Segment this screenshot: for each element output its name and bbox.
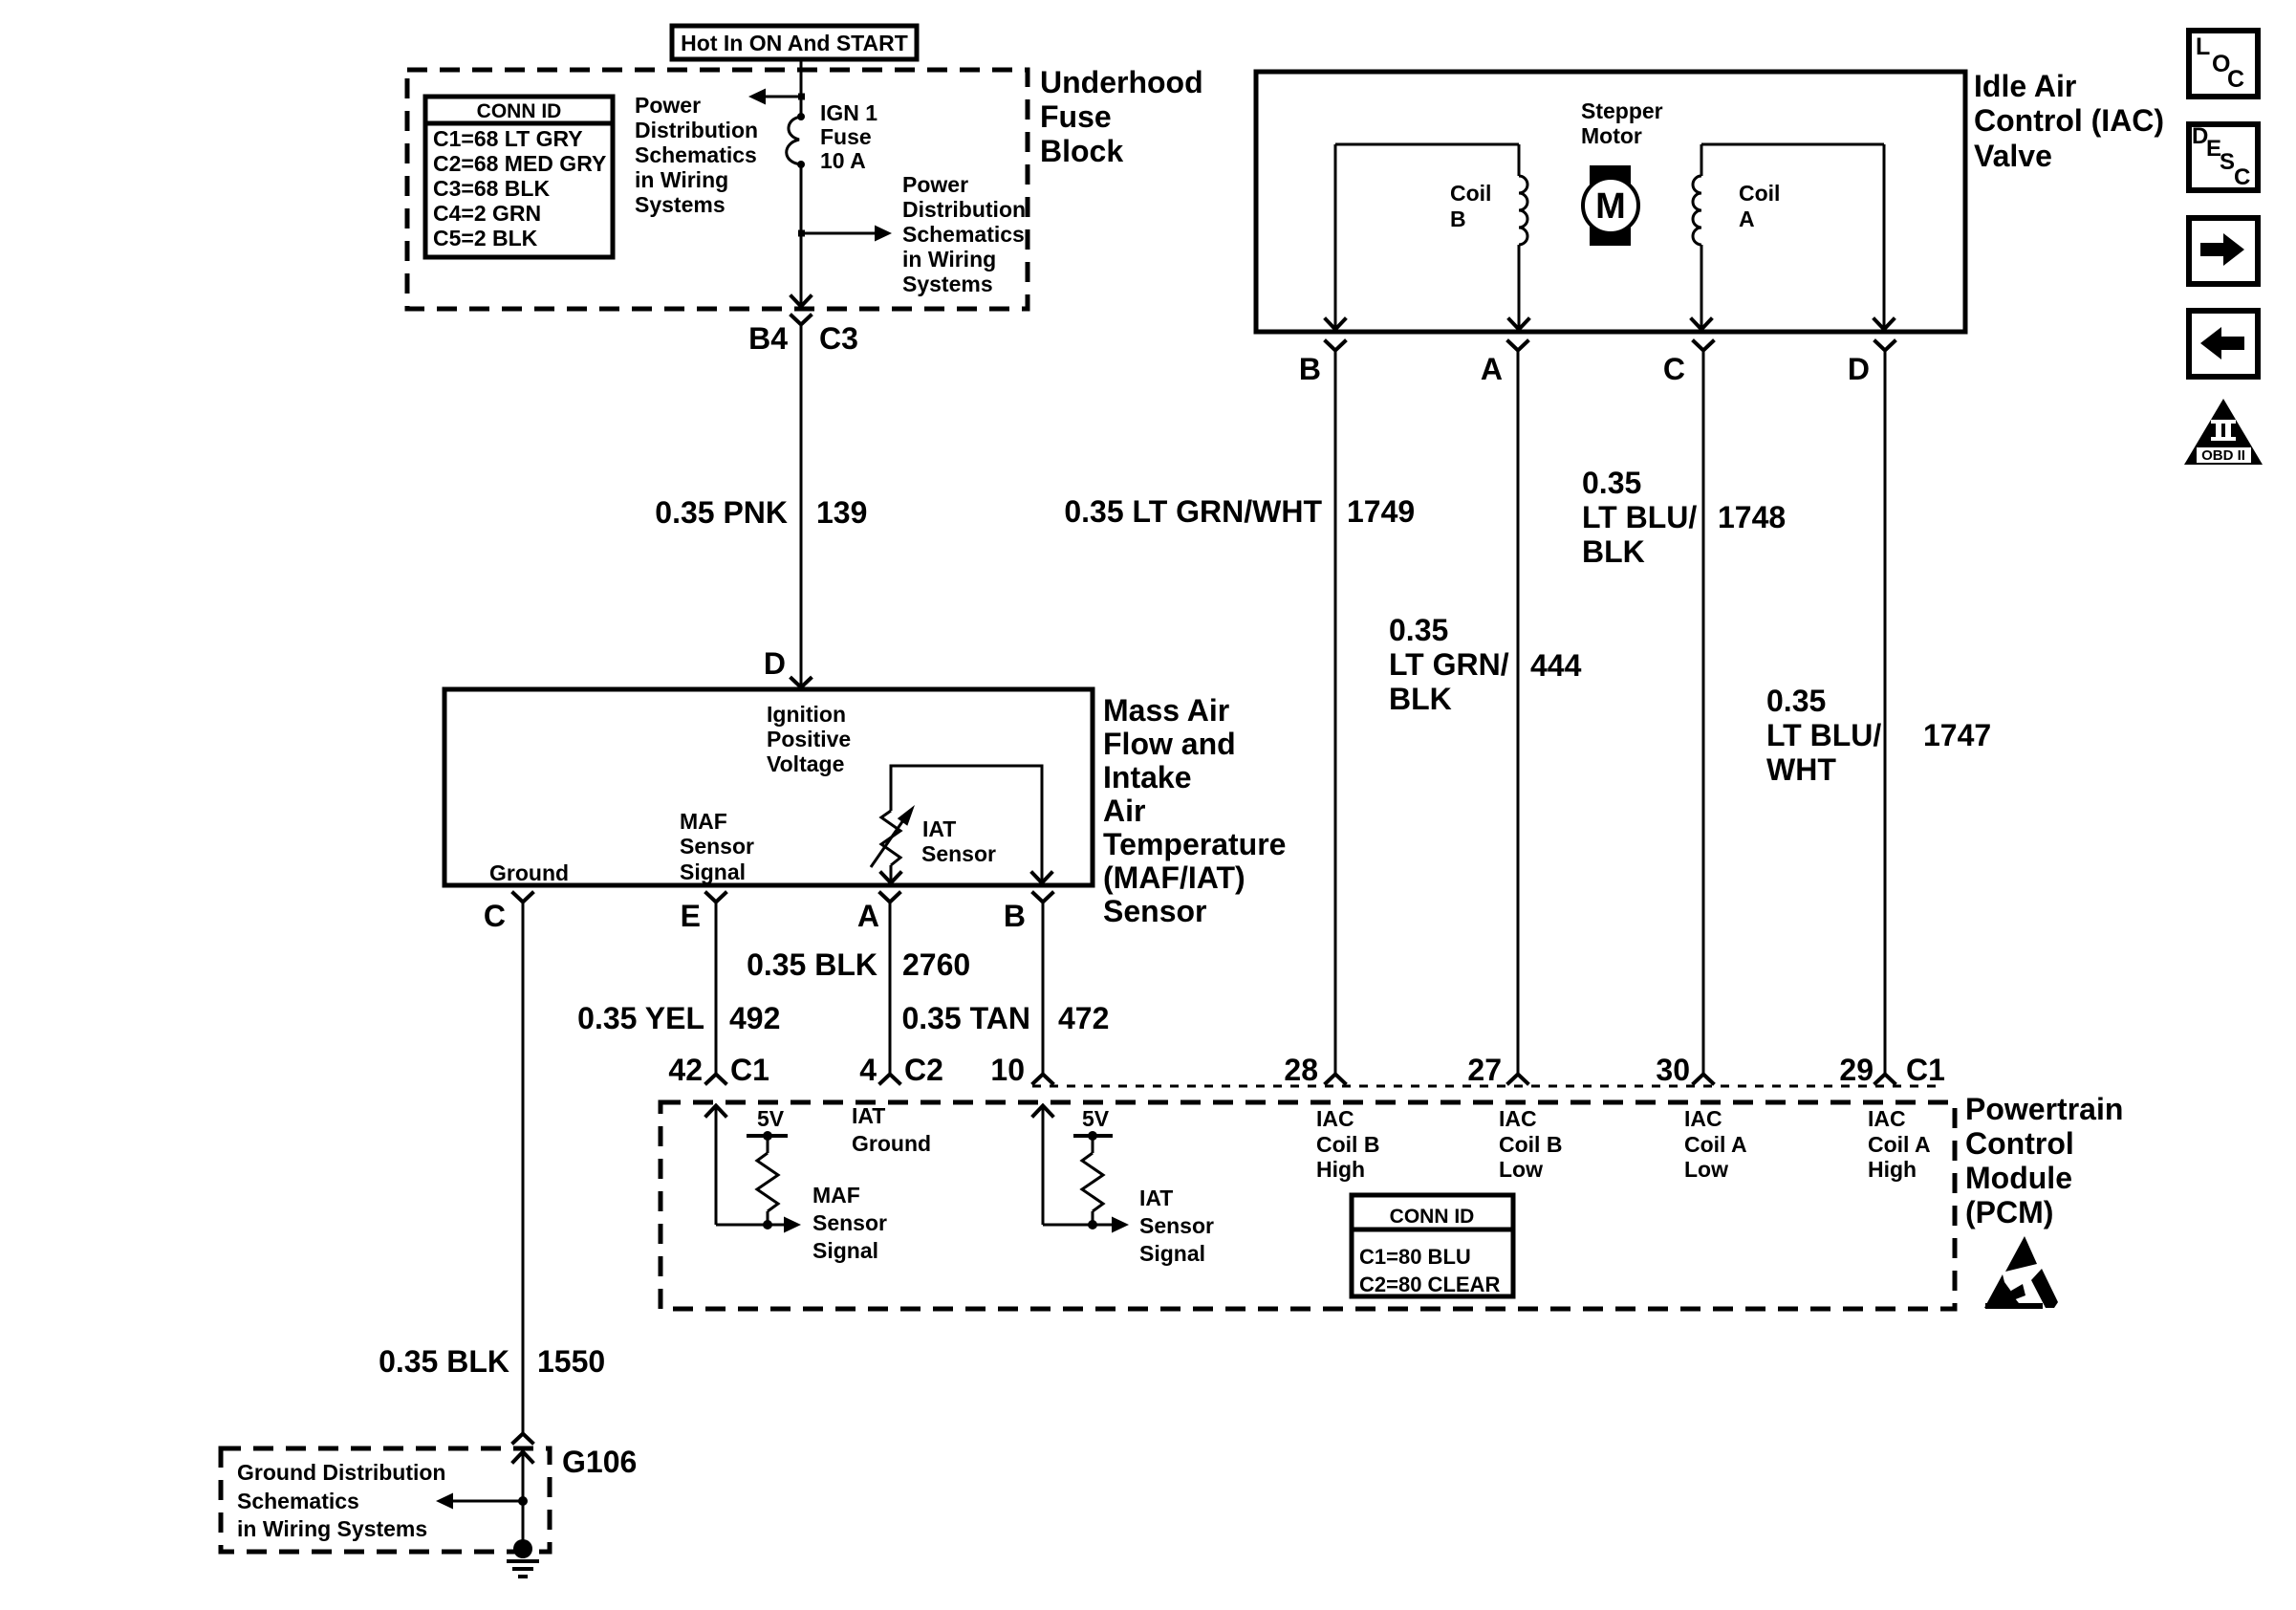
svg-text:in Wiring Systems: in Wiring Systems [237, 1516, 427, 1541]
svg-text:Sensor: Sensor [1139, 1213, 1214, 1238]
svg-text:LT BLU/: LT BLU/ [1582, 500, 1697, 534]
svg-text:492: 492 [729, 1001, 780, 1035]
svg-text:Sensor: Sensor [680, 834, 754, 859]
svg-text:Low: Low [1499, 1157, 1543, 1182]
svg-text:42: 42 [668, 1053, 703, 1087]
svg-text:Control (IAC): Control (IAC) [1974, 103, 2164, 138]
svg-text:1550: 1550 [537, 1344, 605, 1379]
svg-text:0.35: 0.35 [1582, 466, 1641, 500]
svg-text:Distribution: Distribution [635, 118, 758, 142]
svg-text:Hot In ON And START: Hot In ON And START [681, 31, 908, 55]
svg-text:10: 10 [990, 1053, 1025, 1087]
svg-text:0.35 LT GRN/WHT: 0.35 LT GRN/WHT [1064, 494, 1322, 529]
svg-text:WHT: WHT [1766, 752, 1836, 787]
svg-text:Coil: Coil [1739, 181, 1780, 206]
svg-text:C2=68 MED GRY: C2=68 MED GRY [433, 151, 606, 176]
svg-text:C1: C1 [730, 1053, 769, 1087]
svg-text:1748: 1748 [1718, 500, 1786, 534]
svg-text:A: A [857, 899, 879, 933]
svg-text:Valve: Valve [1974, 139, 2052, 173]
svg-text:D: D [1848, 352, 1870, 386]
svg-text:LT GRN/: LT GRN/ [1389, 647, 1509, 682]
svg-text:Motor: Motor [1581, 123, 1642, 148]
svg-text:Idle Air: Idle Air [1974, 69, 2076, 103]
svg-text:Air: Air [1103, 794, 1145, 828]
svg-text:Mass Air: Mass Air [1103, 693, 1229, 728]
svg-text:10 A: 10 A [820, 148, 866, 173]
svg-text:Sensor: Sensor [1103, 894, 1206, 928]
svg-text:0.35 TAN: 0.35 TAN [901, 1001, 1030, 1035]
svg-text:0.35 BLK: 0.35 BLK [747, 947, 877, 982]
svg-text:BLK: BLK [1582, 534, 1645, 569]
svg-text:in Wiring: in Wiring [635, 167, 728, 192]
svg-text:OBD II: OBD II [2201, 447, 2245, 464]
svg-text:High: High [1316, 1157, 1365, 1182]
svg-text:5V: 5V [757, 1106, 785, 1131]
svg-text:Sensor: Sensor [812, 1210, 887, 1235]
svg-text:G106: G106 [562, 1445, 637, 1479]
svg-text:B: B [1450, 207, 1466, 231]
svg-text:IGN 1: IGN 1 [820, 100, 877, 125]
svg-text:IAC: IAC [1684, 1106, 1722, 1131]
svg-text:C: C [484, 899, 506, 933]
svg-text:B4: B4 [748, 321, 788, 356]
svg-text:Power: Power [902, 172, 968, 197]
svg-text:C2=80 CLEAR: C2=80 CLEAR [1359, 1273, 1500, 1296]
svg-text:Coil: Coil [1450, 181, 1491, 206]
svg-text:Coil A: Coil A [1868, 1132, 1931, 1157]
svg-text:Signal: Signal [680, 859, 746, 884]
svg-text:IAC: IAC [1868, 1106, 1906, 1131]
svg-text:0.35 BLK: 0.35 BLK [379, 1344, 509, 1379]
svg-text:(PCM): (PCM) [1965, 1195, 2053, 1229]
svg-text:Block: Block [1040, 134, 1123, 168]
svg-text:CONN ID: CONN ID [477, 100, 562, 122]
svg-text:Control: Control [1965, 1126, 2074, 1161]
svg-text:Ground Distribution: Ground Distribution [237, 1460, 445, 1485]
svg-text:0.35 PNK: 0.35 PNK [655, 495, 788, 530]
svg-text:472: 472 [1058, 1001, 1109, 1035]
svg-text:Underhood: Underhood [1040, 65, 1203, 99]
svg-text:BLK: BLK [1389, 682, 1452, 716]
svg-text:Signal: Signal [1139, 1241, 1205, 1266]
svg-text:IAT: IAT [922, 816, 956, 841]
svg-text:139: 139 [816, 495, 867, 530]
svg-text:High: High [1868, 1157, 1917, 1182]
svg-text:B: B [1004, 899, 1026, 933]
svg-text:0.35: 0.35 [1766, 684, 1826, 718]
svg-text:in Wiring: in Wiring [902, 247, 996, 272]
svg-text:MAF: MAF [680, 809, 727, 834]
svg-text:A: A [1739, 207, 1755, 231]
svg-text:Signal: Signal [812, 1238, 878, 1263]
svg-text:1747: 1747 [1923, 718, 1991, 752]
svg-text:Systems: Systems [635, 192, 726, 217]
svg-text:Temperature: Temperature [1103, 827, 1286, 861]
svg-text:Stepper: Stepper [1581, 98, 1663, 123]
svg-text:Fuse: Fuse [820, 124, 872, 149]
svg-text:Coil B: Coil B [1316, 1132, 1379, 1157]
svg-text:Coil B: Coil B [1499, 1132, 1562, 1157]
svg-text:Sensor: Sensor [921, 841, 996, 866]
svg-text:M: M [1595, 186, 1626, 227]
svg-text:C1=80 BLU: C1=80 BLU [1359, 1245, 1471, 1269]
svg-text:D: D [764, 646, 786, 681]
svg-text:C3=68 BLK: C3=68 BLK [433, 176, 550, 201]
svg-text:29: 29 [1839, 1053, 1874, 1087]
svg-text:5V: 5V [1082, 1106, 1110, 1131]
svg-text:Intake: Intake [1103, 760, 1191, 794]
svg-text:C: C [2234, 164, 2250, 190]
svg-text:30: 30 [1656, 1053, 1690, 1087]
svg-text:Positive: Positive [767, 727, 851, 751]
svg-text:444: 444 [1530, 648, 1582, 683]
svg-text:IAT: IAT [1139, 1186, 1173, 1210]
svg-text:Schematics: Schematics [902, 222, 1025, 247]
svg-text:B: B [1299, 352, 1321, 386]
svg-text:C1: C1 [1906, 1053, 1945, 1087]
svg-text:Voltage: Voltage [767, 751, 844, 776]
svg-text:IAC: IAC [1499, 1106, 1537, 1131]
svg-text:C5=2 BLK: C5=2 BLK [433, 226, 538, 250]
svg-text:LT BLU/: LT BLU/ [1766, 718, 1881, 752]
svg-text:C3: C3 [819, 321, 858, 356]
svg-text:MAF: MAF [812, 1183, 860, 1207]
svg-text:28: 28 [1284, 1053, 1318, 1087]
svg-text:0.35: 0.35 [1389, 613, 1448, 647]
svg-text:Distribution: Distribution [902, 197, 1026, 222]
svg-text:IAT: IAT [852, 1103, 885, 1128]
svg-text:C: C [1663, 352, 1685, 386]
svg-text:L: L [2196, 33, 2210, 60]
svg-text:Schematics: Schematics [237, 1489, 359, 1513]
svg-text:Ground: Ground [489, 860, 569, 885]
svg-text:Ignition: Ignition [767, 702, 846, 727]
svg-text:Systems: Systems [902, 272, 993, 296]
svg-text:4: 4 [859, 1053, 877, 1087]
svg-text:0.35 YEL: 0.35 YEL [577, 1001, 704, 1035]
svg-text:Module: Module [1965, 1161, 2072, 1195]
svg-text:(MAF/IAT): (MAF/IAT) [1103, 860, 1245, 895]
svg-text:Schematics: Schematics [635, 142, 757, 167]
svg-text:C2: C2 [904, 1053, 943, 1087]
svg-text:27: 27 [1467, 1053, 1502, 1087]
svg-text:Power: Power [635, 93, 701, 118]
svg-text:Flow and: Flow and [1103, 727, 1236, 761]
svg-text:Ground: Ground [852, 1131, 931, 1156]
svg-text:Powertrain: Powertrain [1965, 1092, 2123, 1126]
svg-text:C4=2 GRN: C4=2 GRN [433, 201, 541, 226]
svg-text:Low: Low [1684, 1157, 1728, 1182]
svg-text:1749: 1749 [1347, 494, 1415, 529]
svg-text:Coil A: Coil A [1684, 1132, 1747, 1157]
svg-text:E: E [681, 899, 701, 933]
svg-text:Fuse: Fuse [1040, 99, 1112, 134]
svg-text:CONN ID: CONN ID [1390, 1206, 1475, 1228]
svg-text:C: C [2227, 66, 2244, 93]
svg-text:S: S [2220, 149, 2235, 175]
svg-text:2760: 2760 [902, 947, 970, 982]
svg-text:A: A [1481, 352, 1503, 386]
svg-text:IAC: IAC [1316, 1106, 1354, 1131]
svg-text:C1=68 LT GRY: C1=68 LT GRY [433, 126, 583, 151]
